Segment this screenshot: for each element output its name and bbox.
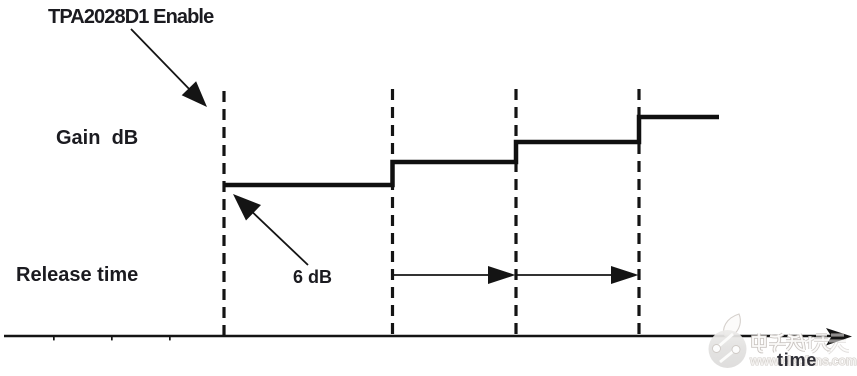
- svg-text:6 dB: 6 dB: [293, 267, 332, 287]
- release time arrow 1: [393, 266, 516, 284]
- svg-text:TPA2028D1 Enable: TPA2028D1 Enable: [48, 6, 214, 28]
- svg-text:Gain dB: Gain dB: [56, 127, 138, 149]
- svg-text:time: time: [777, 350, 817, 370]
- watermark chinese glyph you: [828, 335, 849, 353]
- dashed timing line t2: [391, 89, 394, 336]
- watermark logo disc: [709, 314, 747, 368]
- release time arrow 2: [516, 266, 639, 284]
- axis tick 2: [111, 337, 113, 340]
- enable pointer arrow: [131, 29, 207, 107]
- dashed timing line t4: [637, 89, 640, 336]
- gain staircase waveform: [224, 117, 719, 185]
- dashed timing line t3: [514, 89, 517, 336]
- watermark chinese glyph shao: [806, 334, 831, 352]
- svg-text:Release time: Release time: [16, 264, 138, 286]
- watermark chinese glyph dian: [753, 334, 765, 352]
- axis tick 3: [169, 337, 171, 340]
- axis tick 1: [53, 337, 55, 340]
- watermark chinese glyph fa: [786, 334, 805, 350]
- 6 dB pointer arrow: [233, 194, 308, 265]
- time axis: [4, 328, 852, 346]
- watermark chinese glyph zi: [769, 334, 786, 352]
- dashed timing line t1: [222, 91, 225, 336]
